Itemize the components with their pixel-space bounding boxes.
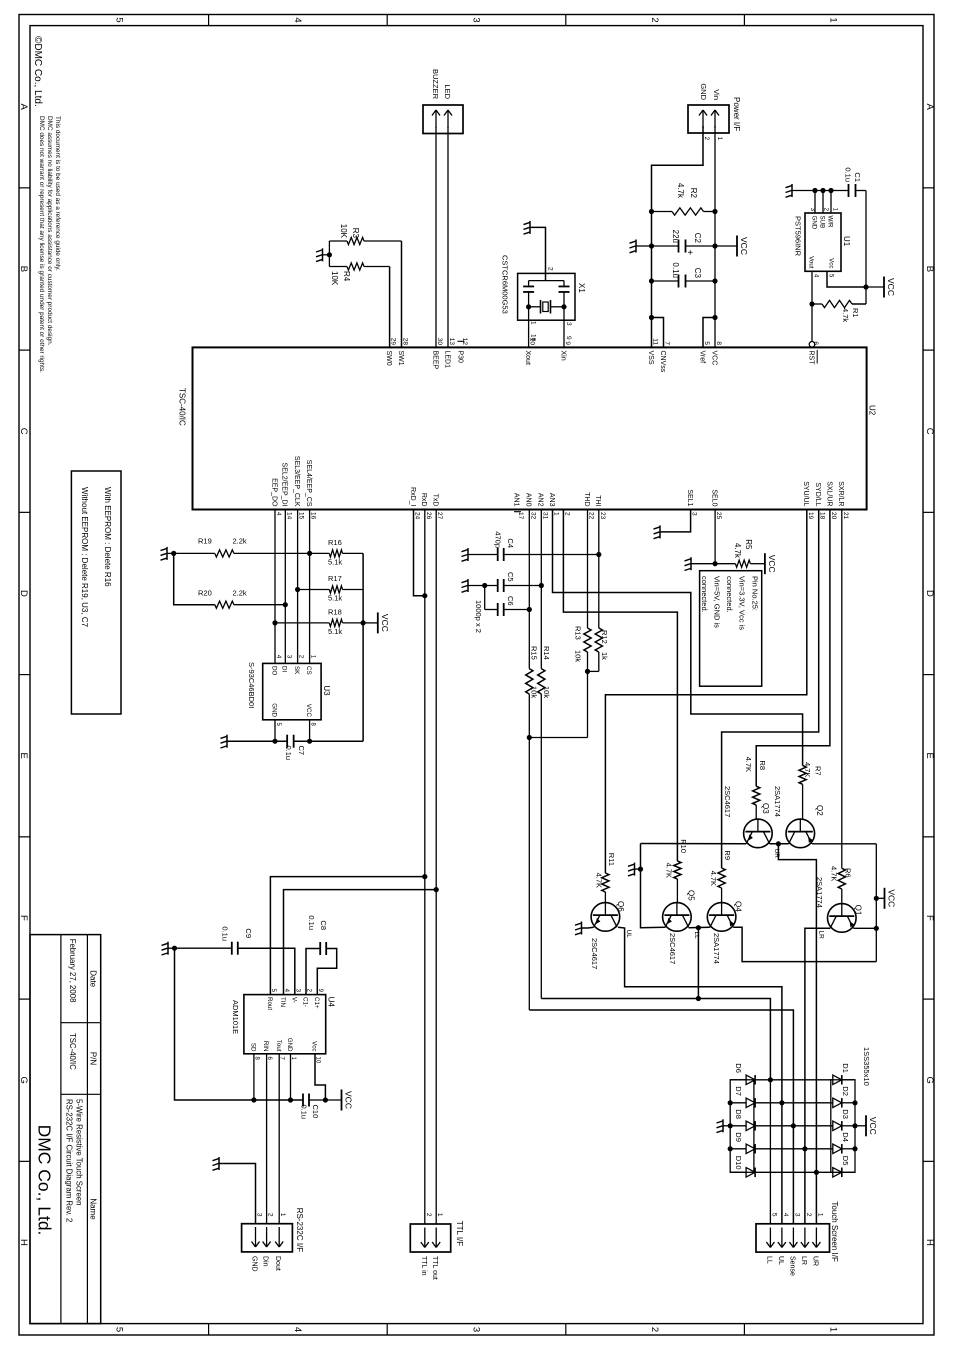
VCC rail transistors [875,844,877,962]
svg-text:VSS: VSS [647,351,654,365]
svg-text:0.1u: 0.1u [221,926,230,941]
ground at U1 [791,184,793,197]
VCC symbol U4 [325,1099,341,1101]
svg-text:VCC: VCC [305,704,312,718]
resistor R5 4.7k [715,563,735,565]
svg-text:D9: D9 [734,1132,743,1142]
svg-text:TSC-40/IC: TSC-40/IC [68,1033,77,1070]
wire RxD_I net [414,510,425,596]
svg-text:GND: GND [699,83,708,100]
X1 cap lower [528,281,530,286]
node DI-R20 [283,602,288,607]
svg-text:C2: C2 [693,233,702,244]
svg-text:THD: THD [583,492,590,506]
node C9 gnd [172,946,177,951]
svg-text:9: 9 [565,336,572,340]
svg-text:2SA1774: 2SA1774 [712,933,721,964]
resistor R11 4.7K [602,873,609,892]
svg-text:R6: R6 [844,868,853,878]
svg-text:LED: LED [443,84,452,99]
wire V- to C9 [238,948,295,994]
TTL pin1 arrow [435,1228,437,1248]
node VCC sym [874,896,879,901]
diode D9 [746,1144,755,1154]
resistor R7 4.7K [799,766,806,785]
svg-text:SEL3/EEP_CLK: SEL3/EEP_CLK [293,456,300,507]
IC U1 PST596INR [805,213,841,271]
svg-text:10K: 10K [330,271,339,286]
svg-text:1: 1 [553,512,560,516]
svg-text:SXR/LR: SXR/LR [837,481,844,506]
svg-text:C7: C7 [297,746,306,756]
svg-text:D: D [18,590,29,597]
node GND5 [272,739,277,744]
ground at R19 [173,547,175,553]
wire THD to AN0 [529,737,587,739]
svg-text:G: G [924,1077,935,1084]
svg-text:3: 3 [471,1327,482,1332]
connector TTL I/F [410,1224,450,1252]
node AN2-C5 [539,583,544,588]
svg-text:Name: Name [89,1198,98,1220]
diode group box D1-D5 [831,1080,855,1173]
svg-text:31: 31 [541,512,548,520]
diode D10 [746,1168,755,1178]
svg-text:9: 9 [564,341,571,345]
svg-text:4.7K: 4.7K [744,757,753,772]
svg-text:1k: 1k [600,652,609,660]
svg-text:4: 4 [275,512,282,516]
svg-text:1: 1 [716,137,723,141]
svg-text:C10: C10 [311,1105,320,1119]
svg-text:470p: 470p [494,531,503,548]
svg-text:UR: UR [811,1256,818,1266]
svg-text:11: 11 [652,338,659,345]
wire Q1 collector LR [805,928,830,1224]
wire Q4 collector to LL to Q5 collector [689,926,710,928]
svg-text:4.7K: 4.7K [709,871,718,886]
diode D3 [842,1125,855,1127]
svg-text:THI: THI [594,495,601,506]
svg-text:R10: R10 [679,839,688,853]
svg-text:P/N: P/N [89,1052,98,1066]
wire EEPROM VCC rail [362,553,364,741]
ground branch SEL0 [691,563,715,565]
svg-text:F: F [924,915,935,921]
node diode col 4 [802,1146,807,1151]
svg-text:C3: C3 [693,268,702,279]
svg-text:+: + [684,250,695,256]
diode D5 [842,1171,855,1173]
svg-text:2: 2 [703,137,710,141]
svg-text:D3: D3 [841,1109,850,1119]
node VCC bus D4 [852,1146,857,1151]
ground at X1 [529,221,531,234]
svg-text:TTL in: TTL in [420,1256,427,1276]
wire SEL0 [714,510,716,564]
svg-text:4: 4 [782,1213,789,1217]
node R19 gnd [171,551,176,556]
svg-text:13: 13 [448,338,455,346]
svg-text:UL: UL [777,1256,784,1265]
svg-text:10k: 10k [542,686,551,698]
capacitor C4 470p [504,554,599,556]
svg-text:PST596INR: PST596INR [794,216,803,257]
svg-text:LL: LL [765,1256,772,1264]
svg-text:U2: U2 [868,405,877,416]
wire R3R4 common [328,241,330,267]
svg-text:D5: D5 [841,1156,850,1166]
svg-text:30: 30 [436,338,443,346]
svg-text:25: 25 [715,512,722,520]
node GND1 [288,1097,293,1102]
node RxD drop [422,874,427,879]
resistor R19 2.2k [234,552,310,554]
svg-text:2SC4617: 2SC4617 [723,786,732,817]
resistor R10 4.7K [674,861,681,879]
node UR [776,841,781,846]
wire LL sense line [769,1080,771,1224]
wire TxD to TIN [284,890,437,995]
svg-text:5.1k: 5.1k [328,627,342,636]
svg-text:19: 19 [807,512,814,520]
svg-text:SD: SD [250,1043,257,1052]
svg-text:22u: 22u [671,230,680,243]
diode D1 [842,1079,855,1081]
svg-text:D7: D7 [734,1086,743,1096]
svg-text:H: H [924,1239,935,1246]
svg-text:14: 14 [285,512,292,520]
svg-text:R12: R12 [600,630,609,644]
node emitter gnd [638,867,643,872]
wire LED1 [447,127,449,347]
svg-text:BEEP: BEEP [431,351,438,370]
svg-text:GND: GND [810,216,817,230]
svg-text:4: 4 [292,1327,303,1332]
ground at C9 [168,947,175,949]
resistor R13 10k [584,628,591,652]
ground at C2 [636,245,652,247]
node GND bus D9 [728,1146,733,1151]
svg-text:C9: C9 [244,928,253,938]
svg-text:Pin No.25:: Pin No.25: [751,576,760,611]
wire Q2 emitter to VCC [812,843,876,845]
IC U4 ADM101E [244,995,326,1054]
svg-text:D6: D6 [734,1063,743,1073]
svg-text:24: 24 [414,512,421,520]
svg-text:7: 7 [664,341,671,345]
resistor R1 4.7k [852,303,866,305]
svg-text:LR: LR [818,931,825,940]
svg-text:5: 5 [113,1327,124,1332]
svg-text:4: 4 [292,17,303,22]
svg-text:H: H [18,1239,29,1246]
resistor R3 10K [364,240,402,242]
svg-text:Vcc: Vcc [311,1041,318,1051]
connector LED/BUZZER [423,105,463,134]
svg-text:connected.: connected. [700,576,709,613]
wire BEEP [435,127,437,347]
svg-text:1: 1 [828,1327,839,1332]
wire Q6 collector UL [618,927,782,1224]
RST open circle [809,342,815,348]
node GND-C2 [649,243,654,248]
BEEP arrow [435,110,437,128]
svg-text:R8: R8 [758,760,767,770]
ground at C7 [226,735,228,748]
svg-text:4.7K: 4.7K [830,866,839,881]
connector Touch Screen I/F [756,1224,830,1252]
svg-text:10k: 10k [530,686,539,698]
transistor Q5 2SC4617 [663,903,692,932]
svg-text:Q5: Q5 [687,890,696,901]
U1 ground rail [792,190,848,192]
svg-text:VCC: VCC [767,555,777,573]
svg-text:C1-: C1- [302,997,309,1007]
node U1 pin1 [828,188,833,193]
svg-text:Vin=3.3V, Vcc is: Vin=3.3V, Vcc is [738,576,747,630]
svg-text:0.1u: 0.1u [844,167,853,182]
capacitor C10 0.1u [308,1094,310,1107]
svg-text:GND: GND [286,1038,293,1052]
svg-text:LR: LR [800,1256,807,1265]
svg-text:SEL2/EEP_DI: SEL2/EEP_DI [281,463,288,507]
wire GND rail [652,126,704,347]
svg-text:4.7k: 4.7k [841,308,850,322]
node SEL0 [713,561,718,566]
Touch pin 5 arrow [769,1228,771,1248]
wire RxD net [424,510,426,1224]
svg-text:0.1u: 0.1u [671,262,680,278]
ground at Q6 [581,922,583,935]
wire pin1 AN3 to R7 [553,510,803,766]
svg-text:SXL/UR: SXL/UR [825,481,832,506]
wire pin19 to R11 [605,510,806,874]
svg-text:P30: P30 [456,351,463,364]
node VCC U1 [863,284,868,289]
wire SD pin8 [253,1054,255,1100]
svg-text:DI: DI [281,666,288,672]
svg-text:3: 3 [565,322,572,326]
svg-text:VCC: VCC [344,1091,354,1109]
svg-text:17: 17 [517,512,524,520]
svg-text:RxD: RxD [420,493,427,507]
wire pin21 to R6 [841,510,843,869]
Touch pin 1 arrow [815,1228,817,1248]
wire EEP_DI net [284,510,286,664]
svg-text:Vcc: Vcc [828,258,835,268]
RS232 pin 2 arrow [266,1227,268,1247]
ground at SEL1 [659,525,661,538]
svg-text:RIN: RIN [262,1041,269,1052]
node VCC bus D2 [852,1100,857,1105]
svg-text:Xout: Xout [524,351,531,365]
resistor R18 5.1k [275,622,329,624]
svg-text:©DMC Co., Ltd.: ©DMC Co., Ltd. [32,36,43,107]
svg-text:C1+: C1+ [313,997,320,1009]
svg-text:2.2k: 2.2k [233,589,247,598]
svg-text:26: 26 [425,512,432,520]
svg-text:SW0: SW0 [385,351,392,366]
capacitor C2 22u [686,245,716,247]
wire LL net [697,928,699,999]
transistor Q2 2SA1774 [786,819,815,848]
svg-text:SUB: SUB [818,216,825,229]
wire TxD net [435,510,437,1224]
TTL pin2 arrow [424,1228,426,1248]
node CS-R19 [307,551,312,556]
wire C1+ loop [317,949,336,995]
wire Xin [563,307,565,348]
svg-text:R5: R5 [744,539,753,550]
connector RS-232C I/F [242,1224,293,1252]
svg-text:10: 10 [530,334,537,342]
svg-text:Tout: Tout [275,1040,282,1052]
svg-text:1: 1 [828,17,839,22]
wire SEL1 [660,510,691,532]
svg-text:Q3: Q3 [761,803,770,814]
svg-text:3: 3 [256,1213,263,1217]
svg-text:10K: 10K [339,224,348,239]
svg-text:Touch Screen I/F: Touch Screen I/F [830,1201,839,1262]
svg-text:R11: R11 [607,853,616,866]
svg-text:32: 32 [529,512,536,520]
diode D8 [746,1121,755,1131]
node Vin-R2 [712,209,717,214]
diode group box D6-D10 [730,1080,754,1173]
svg-text:SEL4/EEP_CS: SEL4/EEP_CS [305,460,312,507]
svg-text:Without EEPROM : Delete R19, U: Without EEPROM : Delete R19, U3, C7 [80,487,89,628]
svg-text:AN2: AN2 [537,493,544,507]
svg-text:D2: D2 [841,1086,850,1096]
resistor R6 4.7K [838,868,845,889]
svg-text:Vin=5V, GND is: Vin=5V, GND is [713,576,722,628]
svg-text:TSC-40/IC: TSC-40/IC [178,388,187,426]
svg-text:RxD_I: RxD_I [409,487,416,507]
svg-text:22: 22 [588,512,595,520]
svg-text:RST: RST [807,351,814,366]
svg-text:R13: R13 [574,626,583,640]
svg-text:R3: R3 [351,228,360,239]
connector Power I/F [688,105,729,133]
svg-text:2: 2 [563,512,570,516]
svg-text:C5: C5 [506,572,515,582]
svg-text:UL: UL [625,930,632,939]
node diode col 5 [814,1170,819,1175]
svg-text:R9: R9 [723,850,732,860]
X1 internal bus [529,280,564,282]
svg-text:D8: D8 [734,1109,743,1119]
transistor Q1 2SA1774 [828,904,857,933]
node THD-AN0 [527,735,532,740]
wire Vin rail [714,126,716,347]
wire pin20 to R8 [756,510,830,787]
svg-text:Din: Din [262,1256,269,1267]
wire C6 to common [484,586,486,610]
svg-text:5: 5 [770,1213,777,1217]
wire pin2 to R10 [563,510,677,862]
IC U2 TSC-40/IC [193,347,867,509]
Touch pin 3 arrow [792,1228,794,1248]
svg-text:B: B [924,266,935,272]
node R3R4 gnd [327,252,332,257]
svg-text:Power I/F: Power I/F [732,97,741,131]
svg-text:D4: D4 [841,1132,850,1142]
svg-text:2SC4617: 2SC4617 [590,938,599,969]
svg-text:Sense: Sense [788,1256,795,1276]
svg-text:R17: R17 [328,574,342,583]
svg-text:connected.: connected. [725,576,734,613]
svg-text:Xin: Xin [559,351,566,361]
wire RxD to Rout [270,877,424,995]
VCC symbol at R5 [764,553,766,574]
svg-text:C1: C1 [853,172,862,182]
wire EEP_CLK net [297,510,299,664]
svg-text:G: G [18,1077,29,1084]
svg-text:CNVss: CNVss [659,351,666,373]
svg-text:VCC: VCC [380,614,390,632]
node X1 top [561,304,566,309]
svg-text:1: 1 [279,1213,286,1217]
svg-text:C: C [924,428,935,435]
svg-text:S-93C46BD0I: S-93C46BD0I [247,662,256,708]
node X1 bottom [526,304,531,309]
Power I/F pin1 arrow [714,110,716,128]
svg-text:2.2k: 2.2k [233,537,247,546]
svg-text:DMC does not warrant or repres: DMC does not warrant or represent that a… [38,116,45,373]
EEPROM note box [71,471,121,714]
svg-text:R19: R19 [198,537,212,546]
svg-text:TIN: TIN [279,997,286,1007]
node diode col 3 [791,1123,796,1128]
svg-text:SEL1: SEL1 [686,489,693,506]
wire Q6 emitter to ground [582,926,594,929]
capacitor C7 0.1u [293,735,295,748]
VCC symbol transistors [876,897,884,899]
svg-text:This document is to be used as: This document is to be used as a referen… [54,116,61,271]
wire CNVss stub [652,318,664,348]
svg-text:C6: C6 [506,596,515,606]
transistor Q4 2SA1774 [707,903,736,932]
node RxD RxD_I [422,593,427,598]
svg-text:SEL0: SEL0 [711,489,718,506]
diode D2 [842,1102,855,1104]
wire THI net [598,510,600,629]
wire Vcc pin10 [315,1054,325,1100]
U1 pin2 SUB [822,191,824,214]
node LL [696,925,701,930]
svg-text:SYD/LL: SYD/LL [814,482,821,506]
svg-text:R1: R1 [851,308,860,318]
node GND bus D8 [728,1123,733,1128]
U3 pin5 GND [274,720,276,741]
transistor Q6 2SC4617 [591,903,620,932]
node GND-R2 [649,209,654,214]
wire Vout to RST [811,271,813,341]
resistor R4 10K [364,266,390,268]
resistor R12 1k [595,628,602,652]
svg-text:VCC: VCC [739,237,749,255]
wire C7 branch [294,740,363,742]
wire SW1 net [401,241,403,347]
wire EEP_DO net [274,510,276,664]
svg-text:TxD: TxD [432,494,439,507]
diode D7 [746,1098,755,1108]
svg-text:4.7K: 4.7K [665,863,674,878]
VCC symbol diodes [855,1125,866,1127]
svg-text:1: 1 [530,321,537,325]
svg-text:4.7K: 4.7K [803,762,812,777]
